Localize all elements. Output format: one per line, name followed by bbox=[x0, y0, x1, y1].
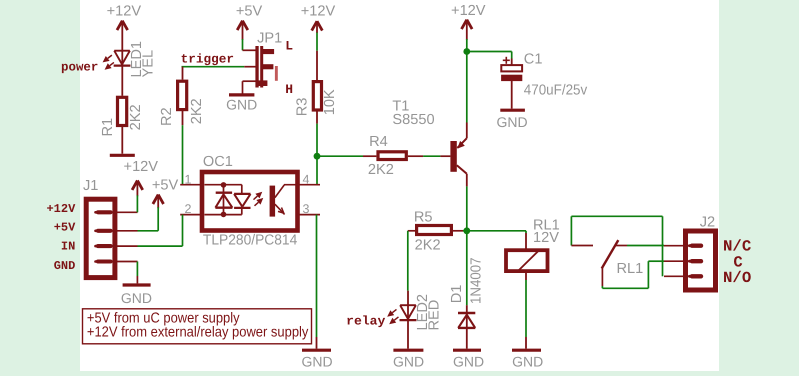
svg-text:YEL: YEL bbox=[141, 50, 157, 78]
svg-text:R1: R1 bbox=[100, 118, 116, 137]
svg-text:2: 2 bbox=[185, 202, 192, 216]
svg-text:+5V: +5V bbox=[54, 221, 76, 235]
svg-text:GND: GND bbox=[393, 354, 424, 370]
svg-text:12V: 12V bbox=[533, 230, 559, 246]
svg-text:2K2: 2K2 bbox=[128, 104, 144, 130]
svg-text:470uF/25v: 470uF/25v bbox=[524, 82, 588, 98]
svg-text:2K2: 2K2 bbox=[415, 237, 441, 253]
svg-text:+12V from external/relay power: +12V from external/relay power supply bbox=[87, 325, 309, 341]
svg-text:JP1: JP1 bbox=[257, 31, 282, 47]
svg-text:GND: GND bbox=[496, 114, 527, 130]
svg-text:RED: RED bbox=[427, 300, 443, 331]
svg-text:GND: GND bbox=[226, 96, 257, 112]
svg-text:+12V: +12V bbox=[46, 202, 76, 216]
svg-text:R3: R3 bbox=[294, 98, 310, 117]
svg-text:1: 1 bbox=[185, 172, 192, 186]
svg-text:R4: R4 bbox=[369, 134, 388, 150]
svg-text:4: 4 bbox=[303, 172, 310, 186]
svg-text:relay: relay bbox=[346, 314, 386, 328]
svg-text:GND: GND bbox=[453, 354, 484, 370]
svg-text:GND: GND bbox=[301, 354, 332, 370]
svg-text:R5: R5 bbox=[414, 209, 433, 225]
svg-text:RL1: RL1 bbox=[617, 261, 644, 277]
svg-text:+12V: +12V bbox=[451, 3, 486, 19]
svg-text:J2: J2 bbox=[700, 215, 715, 231]
svg-text:power: power bbox=[61, 61, 98, 75]
svg-text:1N4007: 1N4007 bbox=[469, 258, 485, 305]
svg-text:GND: GND bbox=[512, 354, 543, 370]
svg-text:S8550: S8550 bbox=[392, 112, 434, 128]
svg-text:TLP280/PC814: TLP280/PC814 bbox=[203, 233, 297, 249]
svg-text:2K2: 2K2 bbox=[368, 162, 394, 178]
svg-text:H: H bbox=[285, 82, 293, 97]
svg-text:GND: GND bbox=[121, 290, 152, 306]
svg-text:C1: C1 bbox=[524, 52, 543, 68]
svg-text:+12V: +12V bbox=[301, 3, 336, 19]
svg-text:10K: 10K bbox=[322, 89, 338, 115]
svg-text:L: L bbox=[285, 39, 293, 54]
svg-text:D1: D1 bbox=[449, 285, 465, 304]
svg-text:2K2: 2K2 bbox=[189, 98, 205, 124]
svg-text:IN: IN bbox=[61, 239, 75, 253]
svg-text:3: 3 bbox=[303, 202, 310, 216]
svg-text:trigger: trigger bbox=[181, 53, 234, 67]
svg-text:+12V: +12V bbox=[107, 3, 142, 19]
svg-text:+5V: +5V bbox=[236, 3, 263, 19]
svg-text:OC1: OC1 bbox=[203, 154, 233, 170]
svg-text:+5V: +5V bbox=[152, 178, 179, 194]
svg-text:J1: J1 bbox=[83, 178, 98, 194]
svg-text:+12V: +12V bbox=[124, 159, 159, 175]
svg-text:GND: GND bbox=[54, 259, 76, 273]
svg-text:N/O: N/O bbox=[723, 269, 751, 287]
svg-text:R2: R2 bbox=[159, 107, 175, 126]
